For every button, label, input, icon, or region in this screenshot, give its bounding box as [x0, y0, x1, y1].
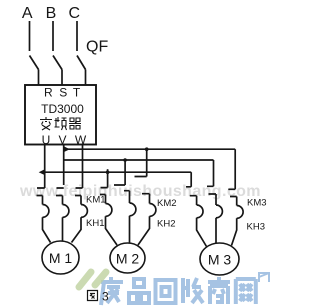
wire V drop: [63, 145, 65, 186]
watermark small trademark mark: [259, 273, 269, 282]
svg-text:www.feipinhuishoushang.com: www.feipinhuishoushang.com: [19, 183, 261, 200]
wire phase A: [29, 21, 31, 51]
overload KH2 element 3: [150, 204, 156, 217]
wire to M3 middle: [215, 218, 217, 244]
svg-text:KH3: KH3: [247, 222, 265, 233]
overload KH1 element 1: [43, 205, 49, 218]
svg-text:U: U: [42, 133, 51, 147]
watermark green swoosh: [79, 272, 106, 287]
wire to M1 middle: [62, 217, 64, 241]
contactor KM3 pole 3: [228, 189, 236, 205]
svg-text:A: A: [22, 5, 33, 22]
junction dot h1 x146.7: [145, 147, 149, 151]
overload KH2 element 1: [106, 204, 112, 217]
wire to M3 right: [232, 218, 237, 245]
svg-text:B: B: [46, 5, 57, 22]
label 变频器 (drawn strokes): [40, 117, 81, 130]
junction arrow on V at h1: [65, 147, 70, 152]
bus h2 right corner drop: [213, 160, 215, 186]
contactor KM3 pole 2: [207, 186, 216, 205]
wire phase C: [76, 21, 78, 51]
svg-text:M 2: M 2: [116, 251, 140, 267]
junction arrow on U at h3: [39, 170, 44, 175]
contactor KM2 pole 3: [135, 177, 150, 204]
motor M1 circle: [42, 241, 79, 274]
wire W drop: [82, 145, 84, 189]
wire to M2 right: [138, 216, 150, 245]
svg-text:KH1: KH1: [86, 218, 104, 229]
bus h2 from V: [64, 159, 214, 161]
motor M2 circle: [110, 243, 145, 273]
overload KH2 element 2: [130, 203, 136, 216]
svg-text:R: R: [44, 86, 53, 100]
svg-text:KH2: KH2: [157, 219, 175, 230]
wire QF pole 1 to box R: [38, 70, 40, 86]
svg-text:3: 3: [102, 290, 109, 304]
caption 图 (drawn strokes): [88, 291, 98, 301]
inverter U1 TD3000 box: [25, 85, 96, 145]
svg-text:KM1: KM1: [86, 195, 106, 206]
svg-text:W: W: [75, 133, 87, 147]
overload KH3 element 2: [216, 205, 222, 218]
contactor KM1 pole 3: [75, 188, 83, 205]
wire to M3 left: [197, 218, 207, 247]
bus h1 right corner drop: [234, 149, 236, 189]
overload KH3 element 3: [237, 206, 243, 219]
wire QF pole 3 to box T: [85, 70, 87, 86]
svg-text:TD3000: TD3000: [41, 102, 84, 116]
wire U drop: [44, 145, 46, 189]
wire QF pole 2 to box S: [61, 70, 63, 86]
wire drop to KM2 pole1: [107, 169, 109, 187]
breaker QF pole 2 blade: [53, 56, 62, 70]
wire drop to KM2 pole3: [146, 149, 148, 176]
junction dot h3 x107.6: [106, 170, 110, 174]
contactor KM3 pole 1: [186, 187, 197, 205]
contactor KM2 pole 1: [100, 188, 108, 204]
overload KH1 element 3: [81, 205, 87, 218]
svg-text:C: C: [69, 5, 81, 22]
overload KH1 element 2: [63, 205, 69, 218]
contactor KM1 pole 2: [56, 188, 64, 205]
bus h3 right corner drop: [190, 172, 192, 187]
overload KH3 element 1: [197, 205, 203, 218]
svg-text:M 1: M 1: [49, 250, 73, 266]
breaker QF pole 1 blade: [30, 56, 39, 70]
svg-text:T: T: [73, 86, 81, 100]
bus h1 from V: [64, 148, 236, 150]
svg-text:KM3: KM3: [247, 198, 267, 209]
breaker QF pole 3 blade: [77, 56, 86, 70]
watermark blue logo text 废品回收商网: [101, 277, 256, 305]
bus h3 from U: [45, 171, 192, 173]
wire to M1 right: [72, 217, 82, 242]
junction dot h2 x125.1: [123, 158, 127, 162]
contactor KM1 pole 1: [37, 188, 45, 205]
motor M3 circle: [200, 243, 239, 275]
svg-text:M 3: M 3: [208, 252, 232, 268]
wire to M2 left: [106, 216, 118, 245]
svg-text:S: S: [59, 86, 67, 100]
wire drop to KM2 pole2: [124, 160, 126, 185]
contactor KM2 pole 2: [114, 185, 130, 203]
svg-text:V: V: [58, 133, 66, 147]
wire to M1 left: [43, 217, 51, 242]
svg-text:KM2: KM2: [157, 198, 177, 209]
wire phase B: [52, 21, 54, 51]
watermark gray url text: [19, 183, 261, 200]
svg-text:QF: QF: [86, 38, 108, 55]
wire to M2 middle: [129, 216, 131, 243]
